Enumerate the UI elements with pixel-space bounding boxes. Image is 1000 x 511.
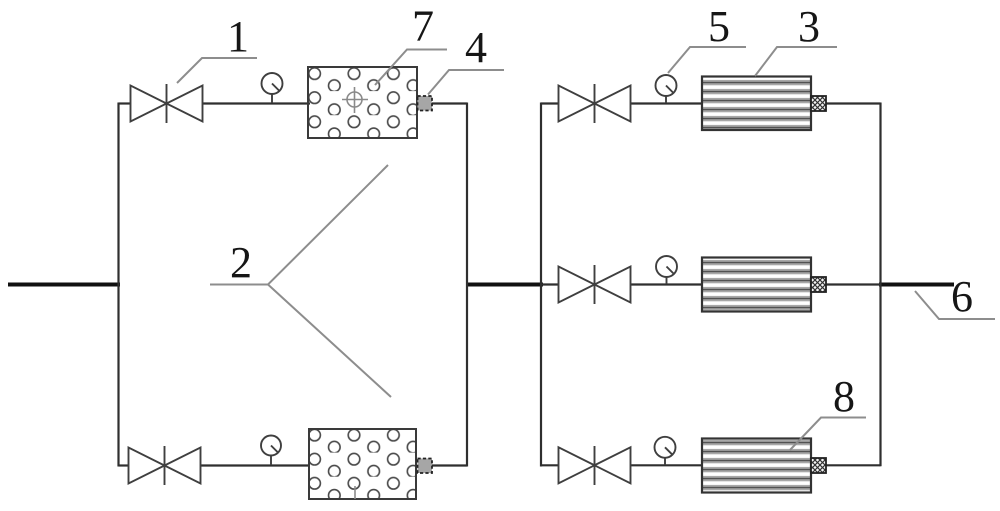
- pressure gauge (top-left): [262, 73, 283, 103]
- left loop left vertical wire: [117, 103, 119, 467]
- middle connecting pipe: [466, 283, 543, 287]
- pressure gauge (bottom-right): [655, 437, 676, 465]
- pressure gauge 5 (top-right): [656, 75, 677, 103]
- crosshatched connector (middle-right): [811, 277, 826, 292]
- connector 4 (top, dashed gray square): [418, 96, 433, 111]
- main outlet pipe: [879, 283, 954, 287]
- top-left branch pipe: [119, 102, 468, 104]
- connector (bottom, dashed gray square): [418, 459, 433, 474]
- valve (middle-right): [559, 265, 631, 304]
- main inlet pipe: [8, 283, 120, 287]
- right section right vertical wire: [879, 103, 881, 467]
- valve (bottom-left): [129, 446, 201, 485]
- svg-text:3: 3: [798, 2, 820, 51]
- leader for label 6: [915, 291, 995, 319]
- svg-text:2: 2: [230, 238, 252, 287]
- bottom filter center tick: [354, 486, 356, 499]
- pressure gauge (bottom-left): [261, 436, 281, 466]
- valve 1 (top-left): [131, 84, 203, 123]
- pressure gauge (middle-right): [656, 256, 677, 284]
- middle-right branch pipe: [541, 283, 881, 285]
- svg-text:4: 4: [465, 23, 487, 72]
- bottom-right branch pipe: [541, 464, 881, 466]
- leader for label 7: [375, 50, 447, 86]
- crosshatched connector (top-right): [811, 96, 826, 111]
- crosshatched connector (bottom-right): [811, 458, 826, 473]
- filter (bottom, dotted rectangle): [309, 429, 416, 499]
- leader for label 1: [177, 58, 257, 83]
- leader for label 5: [668, 47, 746, 73]
- filter 7 (top, dotted rectangle): [308, 67, 417, 138]
- leader for label 2 (chevron): [210, 165, 391, 397]
- valve (bottom-right): [559, 446, 631, 485]
- heat exchanger 8 (bottom, striped rectangle): [702, 439, 811, 493]
- leader for label 4: [428, 70, 504, 95]
- heat exchanger (middle, striped rectangle): [702, 258, 811, 312]
- leader for label 3: [755, 47, 837, 76]
- center mark of filter 7: [345, 90, 365, 110]
- heat exchanger 3 (top, striped rectangle): [702, 77, 811, 131]
- bottom-left branch pipe: [119, 464, 468, 466]
- top-right branch pipe: [541, 102, 881, 104]
- svg-text:8: 8: [833, 372, 855, 421]
- svg-text:6: 6: [951, 272, 973, 321]
- svg-text:7: 7: [412, 2, 434, 51]
- svg-text:1: 1: [227, 12, 249, 61]
- left loop right vertical wire: [466, 103, 468, 467]
- valve (top-right): [559, 84, 631, 123]
- right section left vertical wire: [540, 103, 542, 467]
- svg-text:5: 5: [708, 2, 730, 51]
- leader for label 8: [790, 418, 866, 451]
